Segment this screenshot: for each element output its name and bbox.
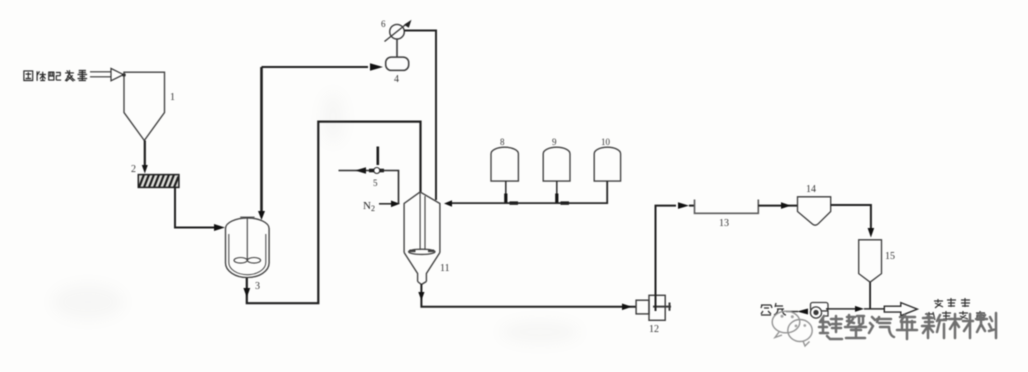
blower bbox=[810, 303, 828, 319]
char 配 bbox=[48, 72, 61, 80]
wire 15 down to product line bbox=[869, 282, 871, 309]
vessel 11 bbox=[404, 192, 440, 285]
valve 5 bbox=[339, 147, 385, 174]
塑 bbox=[845, 315, 866, 338]
pump 6 (circle with diagonal arrow) bbox=[385, 24, 408, 42]
hopper 1 bbox=[124, 72, 165, 140]
wire monomer header to vessel 11 bbox=[452, 181, 607, 203]
svg-text:1: 1 bbox=[170, 92, 175, 103]
hopper 15 bbox=[859, 240, 882, 282]
svg-text:10: 10 bbox=[601, 137, 611, 147]
车 bbox=[897, 315, 917, 339]
feed text label bbox=[24, 70, 87, 81]
svg-text:6: 6 bbox=[381, 19, 386, 29]
svg-text:3: 3 bbox=[255, 281, 260, 292]
wire tank 9 outlet bbox=[557, 181, 565, 203]
svg-text:2: 2 bbox=[131, 164, 136, 175]
wire feeder to reactor 3 bbox=[175, 187, 215, 228]
料 bbox=[976, 313, 996, 338]
svg-text:12: 12 bbox=[649, 324, 659, 335]
wire overhead to condenser 4 bbox=[262, 66, 369, 68]
svg-text:4: 4 bbox=[394, 74, 399, 85]
dip tube inside vessel 11 bbox=[420, 192, 425, 250]
svg-text:14: 14 bbox=[806, 184, 816, 195]
svg-text:5: 5 bbox=[373, 178, 378, 188]
watermark text 链塑汽车新材料 bbox=[819, 313, 996, 339]
char 发 bbox=[65, 70, 75, 81]
product text line2 或集装箱 bbox=[925, 311, 985, 320]
condenser 4 bbox=[386, 57, 409, 70]
svg-text:15: 15 bbox=[885, 251, 895, 262]
faint scan smudges (decorative) bbox=[52, 92, 580, 344]
feeder 12 bbox=[636, 295, 671, 320]
wire reactor bottom transfer to vessel 11 bbox=[247, 122, 421, 304]
svg-text:11: 11 bbox=[440, 263, 450, 274]
product text line1 标准桶 bbox=[934, 298, 970, 308]
wire valve 5 to vessel 11 shoulder bbox=[381, 171, 399, 204]
conveyor 13 bbox=[695, 200, 759, 214]
新 bbox=[922, 314, 946, 338]
wire tank 8 outlet bbox=[506, 181, 514, 203]
watermark logo (double bubble) bbox=[772, 311, 812, 346]
wire 14 to hopper 15 bbox=[831, 205, 871, 228]
reactor 3 vessel bbox=[226, 218, 270, 278]
svg-text:8: 8 bbox=[500, 137, 505, 147]
tank 9 bbox=[543, 147, 570, 181]
feeder 2 hatched box bbox=[138, 175, 179, 188]
链 bbox=[819, 316, 842, 339]
char 量 bbox=[78, 71, 88, 81]
wire reactor overhead return (down arrow into dome) bbox=[260, 67, 263, 212]
tank 10 bbox=[594, 147, 620, 181]
材 bbox=[949, 314, 973, 338]
wire vessel 11 bottom to feeder 12 bbox=[421, 284, 636, 307]
wire 13 to cyclone 14 bbox=[758, 205, 797, 207]
air text 空气 bbox=[761, 303, 786, 315]
wire 4 to pump 6 bbox=[396, 39, 398, 57]
svg-text:13: 13 bbox=[719, 218, 729, 229]
wire 12 riser to conveyor 13 bbox=[656, 206, 677, 311]
feed arrow (open) bbox=[90, 68, 124, 80]
tank 8 bbox=[491, 147, 518, 181]
wire pump 6 to vessel 11 top bbox=[404, 31, 436, 201]
distributor ellipse bbox=[409, 249, 435, 254]
svg-text:9: 9 bbox=[552, 137, 557, 147]
wire N2 into vessel 11 bbox=[379, 203, 392, 205]
汽 bbox=[869, 317, 894, 337]
char 固 bbox=[24, 71, 33, 81]
wire air inlet arrow bbox=[786, 311, 798, 313]
product arrow (open) bbox=[884, 303, 917, 316]
wire blower to junction and product arrow bbox=[826, 308, 855, 310]
wire hopper to feeder 2 bbox=[144, 141, 146, 171]
cyclone 14 bbox=[798, 197, 831, 225]
char 体 bbox=[37, 71, 46, 81]
agitator of reactor 3 bbox=[234, 217, 261, 263]
